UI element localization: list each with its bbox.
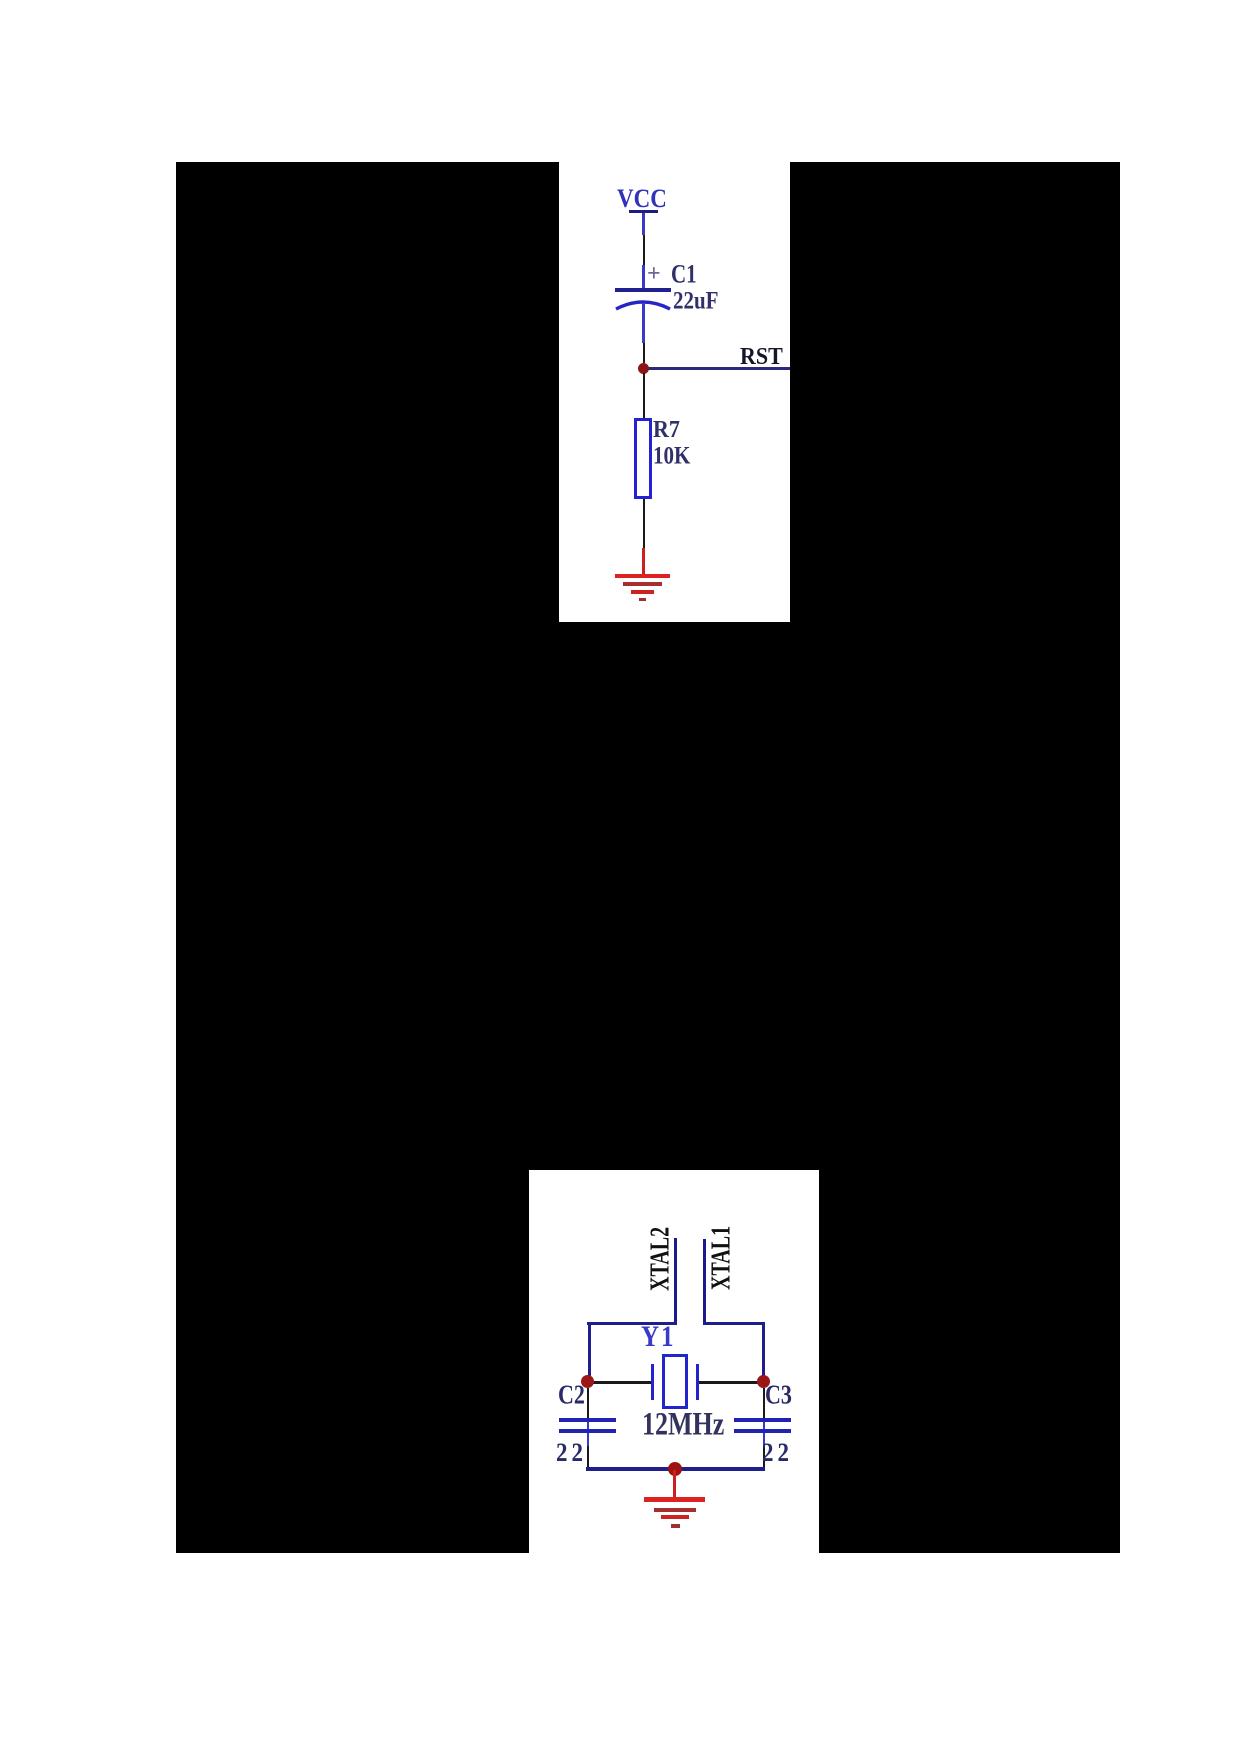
wire node to RST pin <box>643 367 790 370</box>
ground symbol (bottom) bar 1 <box>644 1497 705 1502</box>
capacitor C1 polarity plus <box>647 262 661 286</box>
capacitor C1 designator <box>671 261 697 287</box>
white window (crystal circuit) <box>529 1170 819 1553</box>
power flag VCC label <box>617 185 667 212</box>
wire R7 to ground (black part) <box>643 499 645 548</box>
resistor R7 value 10K <box>653 443 690 468</box>
ground symbol (bottom) bar 2 <box>654 1508 696 1512</box>
capacitor C2 value 22 <box>556 1439 587 1465</box>
capacitor C1 curved bottom plate <box>612 293 674 313</box>
capacitor C2 bottom plate <box>559 1429 616 1433</box>
wire C2 to bottom rail (black part) <box>587 1446 590 1468</box>
junction node at RST <box>638 363 649 374</box>
net label RST <box>740 344 783 368</box>
capacitor C3 top plate <box>734 1418 791 1422</box>
pin label XTAL2 (rotated) <box>647 1227 674 1291</box>
wire C1 to node (blue part) <box>642 303 645 343</box>
pin label XTAL1 (rotated) <box>708 1226 735 1290</box>
wire top-right horizontal <box>703 1322 765 1325</box>
wire C2 to bottom rail (blue part) <box>587 1433 590 1446</box>
ground symbol (top) bar 1 <box>615 574 670 579</box>
wire C2 node down (black) <box>587 1388 590 1418</box>
ground symbol (top) bar 4 <box>639 598 646 602</box>
capacitor C1 value 22uF <box>673 288 719 313</box>
wire C3 to bottom rail (blue part) <box>763 1433 766 1446</box>
junction node C2 <box>581 1375 594 1388</box>
resistor R7 body <box>634 418 652 499</box>
wire top-left horizontal <box>587 1322 677 1325</box>
wire C1 to node (black part) <box>643 343 645 363</box>
resistor R7 designator <box>653 417 680 441</box>
capacitor C3 designator <box>765 1381 792 1409</box>
pin wire XTAL2 <box>674 1238 677 1323</box>
wire VCC bar to C1 (blue part) <box>642 213 645 235</box>
wire right vertical <box>762 1322 765 1382</box>
capacitor C3 inter-plate stub <box>763 1422 766 1429</box>
crystal Y1 left electrode <box>651 1364 654 1400</box>
pin wire XTAL1 <box>703 1239 706 1323</box>
capacitor C1 top plate <box>615 288 671 292</box>
wire right electrode to C3 node <box>699 1381 763 1384</box>
wire R7 to ground (red part) <box>642 548 645 574</box>
wire left vertical <box>588 1322 591 1382</box>
capacitor C2 top plate <box>559 1418 616 1422</box>
capacitor C3 value 22 <box>762 1439 793 1465</box>
crystal Y1 designator <box>641 1322 676 1352</box>
capacitor C3 bottom plate <box>734 1429 791 1433</box>
capacitor C2 inter-plate stub <box>587 1422 590 1429</box>
ground symbol (top) bar 2 <box>623 582 662 586</box>
wire node to ground (red) <box>673 1470 676 1497</box>
white window (reset circuit) <box>559 162 790 622</box>
wire VCC to C1 (black part) <box>643 235 645 265</box>
wire C2 node to left electrode <box>588 1381 651 1384</box>
ground symbol (bottom) bar 3 <box>661 1515 689 1519</box>
pin into C1 (blue) <box>642 265 645 289</box>
crystal Y1 right electrode <box>696 1364 699 1400</box>
wire C3 to bottom rail (black part) <box>763 1446 766 1468</box>
wire C3 node down (black) <box>763 1388 766 1418</box>
crystal Y1 value 12MHz <box>642 1408 724 1441</box>
wire node to R7 <box>643 373 645 418</box>
capacitor C2 designator <box>558 1381 585 1409</box>
junction node ground <box>668 1462 682 1476</box>
power flag VCC bar <box>629 210 658 213</box>
wire bottom rail <box>586 1467 765 1471</box>
crystal Y1 body <box>662 1354 688 1409</box>
black background panel <box>176 162 1120 1553</box>
junction node C3 <box>757 1375 770 1388</box>
ground symbol (top) bar 3 <box>631 590 654 594</box>
ground symbol (bottom) bar 4 <box>671 1524 680 1528</box>
